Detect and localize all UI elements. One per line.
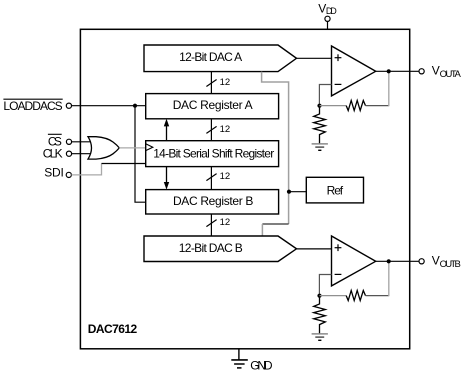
svg-text:12-Bit DAC A: 12-Bit DAC A (179, 50, 242, 64)
DAC Register B (146, 190, 279, 214)
CS label (48, 133, 62, 135)
resistor R3 (feedback B) (346, 291, 365, 301)
bus 12 : DAC A to DAC Register A (210, 72, 212, 94)
wire OR gate output to shift register (119, 147, 145, 149)
svg-text:SDI: SDI (44, 165, 64, 179)
12-Bit DAC A (144, 45, 297, 72)
14-Bit Serial Shift Register (146, 141, 279, 167)
wire LOADDACS branch to DAC Register B (135, 106, 146, 203)
wire ref net (DAC A to Ref to DAC B) (262, 72, 289, 224)
ground (channel B) (312, 333, 328, 335)
wire feedback B (inverting input) (319, 275, 331, 296)
wire VDD (327, 21, 329, 29)
svg-text:LOADDACS: LOADDACS (3, 99, 62, 113)
arrow shift register to DAC Register A (166, 123, 168, 141)
VOUTA terminal (419, 69, 424, 74)
SDI terminal (66, 172, 71, 177)
svg-text:12: 12 (220, 77, 231, 88)
svg-text:OUTB: OUTB (440, 259, 461, 270)
svg-text:12: 12 (220, 217, 231, 228)
resistor R1 (feedback A) (346, 101, 365, 111)
node feedback A (317, 104, 321, 108)
VDD terminal (325, 16, 330, 21)
wire node A to R1 (320, 105, 347, 107)
svg-text:12-Bit DAC B: 12-Bit DAC B (179, 241, 243, 255)
svg-text:GND: GND (250, 359, 273, 373)
svg-text:V: V (432, 64, 440, 78)
node output A (387, 69, 391, 73)
svg-text:12: 12 (220, 124, 231, 135)
wire GND stub (238, 349, 240, 360)
OR gate (88, 137, 119, 159)
node output B (387, 259, 391, 263)
svg-text:12: 12 (220, 171, 231, 182)
svg-text:CLK: CLK (43, 147, 63, 161)
wire DAC B to op-amp B (297, 248, 332, 250)
clock input symbol (146, 144, 153, 151)
wire ref junction to Ref block (289, 191, 306, 193)
node feedback B (317, 294, 321, 298)
Ref block (306, 177, 363, 203)
node ref junction (287, 190, 291, 194)
bus 12 : DAC Register B to DAC B (210, 214, 212, 236)
wire SDI (71, 164, 101, 175)
wire feedback A (inverting input) (319, 85, 331, 106)
12-Bit DAC B (144, 236, 297, 262)
svg-text:DD: DD (326, 6, 337, 16)
ground (channel A) (312, 143, 328, 145)
wire CLK to OR gate (72, 153, 93, 155)
wire node B to R3 (320, 295, 347, 297)
CLK terminal (66, 151, 71, 156)
svg-text:14-Bit Serial Shift Register: 14-Bit Serial Shift Register (153, 147, 274, 161)
wire VOUTA (376, 70, 419, 72)
bus 12 : DAC Register A to shift register (210, 119, 212, 141)
resistor R4 (B to ground) (314, 297, 326, 334)
op-amp U1 (channel A) (332, 46, 376, 96)
wire R3 to output B (366, 295, 389, 297)
node LOADDACS junction (133, 104, 137, 108)
ground GND (231, 359, 248, 361)
svg-text:DAC Register B: DAC Register B (173, 194, 254, 208)
wire R1 to output A (366, 105, 389, 107)
wire CS to OR gate (72, 141, 93, 143)
svg-text:OUTA: OUTA (440, 69, 462, 80)
arrow shift register to DAC Register B (166, 167, 168, 186)
wire LOADDACS to DAC Register A (72, 105, 146, 107)
resistor R2 (A to ground) (314, 107, 326, 144)
CS terminal (66, 139, 71, 144)
svg-text:V: V (432, 254, 440, 268)
LOADDACS label (3, 98, 62, 100)
bus 12 : shift register to DAC Register B (210, 167, 212, 190)
VOUTB terminal (419, 259, 424, 264)
wire DAC A to op-amp A (297, 57, 332, 59)
svg-text:DAC Register A: DAC Register A (173, 98, 253, 112)
DAC Register A (146, 94, 279, 119)
wire VOUTB (376, 260, 419, 262)
outer box DAC7612 (80, 29, 409, 349)
op-amp U2 (channel B) (332, 236, 376, 286)
wire SDI to shift register (102, 163, 146, 165)
LOADDACS terminal (66, 103, 71, 108)
svg-text:Ref: Ref (327, 184, 344, 198)
svg-text:DAC7612: DAC7612 (88, 322, 138, 336)
